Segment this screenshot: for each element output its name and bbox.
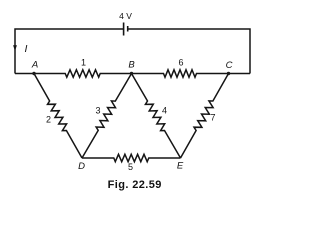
svg-text:Fig. 22.59: Fig. 22.59: [108, 179, 162, 191]
svg-text:A: A: [31, 60, 38, 71]
svg-text:3: 3: [95, 106, 100, 116]
svg-text:I: I: [25, 43, 28, 55]
svg-text:5: 5: [128, 162, 133, 172]
svg-text:1: 1: [81, 58, 86, 68]
svg-text:4 V: 4 V: [119, 11, 132, 21]
svg-text:4: 4: [162, 106, 167, 116]
svg-text:B: B: [128, 60, 135, 71]
svg-text:D: D: [78, 161, 85, 172]
svg-text:C: C: [226, 60, 233, 71]
svg-text:7: 7: [210, 113, 215, 123]
svg-text:E: E: [177, 161, 184, 172]
svg-text:2: 2: [46, 115, 51, 125]
svg-text:6: 6: [178, 58, 183, 68]
